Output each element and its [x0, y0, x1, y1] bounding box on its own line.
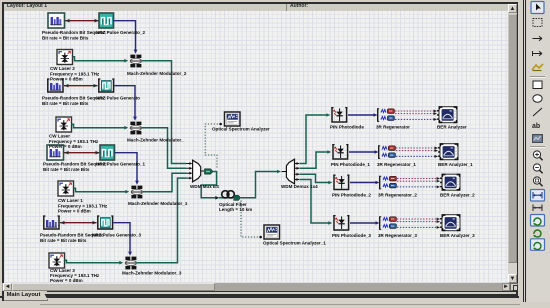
wire PRBS_2 to NRZ_2 (binary): [65, 19, 99, 23]
svg-text:3R Regenerator_3: 3R Regenerator_3: [378, 233, 417, 238]
Mach-Zehnder Modulator_1: [131, 186, 142, 199]
NRZ Pulse Generator_2: [99, 13, 114, 28]
arrow tool 2: [533, 51, 543, 56]
svg-text:WDM Mux ES: WDM Mux ES: [190, 184, 219, 189]
line tool: [533, 108, 542, 116]
svg-text:Mach-Zehnder Modulator_1: Mach-Zehnder Modulator_1: [128, 201, 188, 206]
svg-text:Mach-Zehnder Modulator_2: Mach-Zehnder Modulator_2: [127, 71, 187, 76]
svg-text:BER Analyzer_1: BER Analyzer_1: [438, 162, 473, 167]
PIN Photodiode_1: [332, 145, 348, 159]
status area line: [40, 304, 520, 305]
svg-text:NRZ Pulse Generato_3: NRZ Pulse Generato_3: [92, 233, 141, 238]
wire demux out 1 to PIN Photodiode (optical): [300, 113, 331, 163]
wire MZM_1 to WDM mux input 3 (optical): [143, 173, 186, 192]
3R Regenerator_3: [379, 217, 396, 230]
dotted wires 3R Regenerator_3 to BER Analyzer_3: [397, 218, 440, 229]
image tool: [532, 134, 543, 143]
BER Analyzer_1: [438, 144, 458, 160]
svg-text:Mach-Zehnder Modulator_3: Mach-Zehnder Modulator_3: [122, 271, 182, 276]
svg-text:Frequency = 193.1 THz: Frequency = 193.1 THz: [58, 203, 108, 208]
svg-text:PIN Photodiode: PIN Photodiode: [330, 124, 364, 129]
WDM Demux 1x4: [282, 159, 300, 184]
BER Analyzer_3: [440, 215, 460, 231]
svg-text:3R Regenerator: 3R Regenerator: [376, 124, 410, 129]
3R Regenerator: [377, 109, 394, 122]
separator: [530, 146, 545, 148]
dotted wires 3R Regenerator to BER Analyzer: [395, 110, 437, 121]
svg-text:CW Laser: CW Laser: [49, 134, 70, 139]
zoom out tool: [533, 164, 542, 173]
svg-text:Power = 0 dBm: Power = 0 dBm: [50, 77, 83, 82]
layout tool: [533, 230, 541, 237]
svg-text:CW Laser 1: CW Laser 1: [58, 198, 83, 203]
svg-text:Length = 10 km: Length = 10 km: [219, 207, 252, 212]
svg-text:Mach-Zehnder Modulator_: Mach-Zehnder Modulator_: [127, 138, 184, 143]
svg-text:Frequency = 193.1 THz: Frequency = 193.1 THz: [50, 71, 100, 76]
wire NRZ_2 to MZM_2 (electrical): [114, 21, 138, 54]
dotted wires 3R Regenerator_2 to BER Analyzer_2: [397, 177, 440, 188]
script tool: [532, 64, 543, 70]
svg-text:NRZ Pulse Generato_1: NRZ Pulse Generato_1: [96, 162, 145, 167]
CW Laser: [56, 117, 72, 132]
PRBS generator Pseudo-Random Bit Sequence Generator_1: [47, 145, 64, 160]
3R Regenerator_1: [378, 146, 395, 159]
frame left edge extension: [2, 294, 4, 301]
right toolbar: [527, 0, 550, 302]
zoom window tool: [533, 177, 542, 186]
wire NRZ to MZM (electrical) chain 2: [115, 86, 137, 121]
CW Laser 1: [58, 181, 74, 196]
svg-text:Optical Spectrum Analyzer: Optical Spectrum Analyzer: [212, 126, 270, 131]
wire demux out 2 to PIN Photodiode_1 (optical): [300, 150, 332, 168]
PIN Photodiode_3: [333, 216, 349, 230]
svg-text:BER Analyzer: BER Analyzer: [437, 124, 467, 129]
fit to window (active): [531, 190, 545, 202]
sweep tool (active): [531, 239, 545, 251]
Optical Spectrum Analyzer: [225, 112, 241, 126]
wire MZM_3 to WDM mux input 4 (optical): [137, 178, 186, 263]
Main Layout tab: [3, 291, 48, 301]
marquee tool: [533, 19, 542, 27]
WDM Mux ES 4x1: [186, 160, 204, 182]
svg-text:3R Regenerator_1: 3R Regenerator_1: [377, 162, 416, 167]
separator: [530, 76, 545, 78]
dotted tap to Optical Spectrum Analyzer_1: [241, 201, 262, 239]
title bar: [4, 4, 509, 12]
dotted wires 3R Regenerator_1 to BER Analyzer_1: [396, 147, 438, 158]
CW Laser 2: [57, 50, 73, 65]
wire CW Laser 2 to MZM_2 (optical): [73, 57, 129, 63]
PIN Photodiode_2: [333, 175, 349, 189]
wire PRBS to NRZ (binary) chain 2: [64, 84, 98, 88]
PRBS generator Pseudo-Random Bit Sequence Generator_3: [43, 216, 60, 229]
svg-text:Bit rate = Bit rate Bits: Bit rate = Bit rate Bits: [42, 35, 89, 40]
wire WDM mux to optical fiber (optical): [201, 172, 219, 200]
PRBS generator Pseudo-Random Bit Sequence Generator: [47, 79, 64, 92]
select tool (active): [531, 2, 544, 14]
3R Regenerator_2: [379, 176, 396, 189]
fiber output port connector: [234, 195, 241, 200]
mux output port connector: [205, 169, 214, 174]
svg-text:Power = 0 dBm: Power = 0 dBm: [58, 209, 91, 214]
wire MZM_2 to WDM mux input 1 (optical): [142, 61, 186, 164]
NRZ Pulse Generator: [98, 79, 114, 92]
zoom in tool: [533, 151, 542, 160]
wire demux out 3 to PIN Photodiode_2 (optical): [300, 174, 333, 184]
wire demux out 4 to PIN Photodiode_3 (optical): [300, 180, 333, 225]
wire NRZ_3 to MZM_3 (electrical): [114, 223, 132, 256]
wire PRBS_1 to NRZ_1 (binary) chain 3: [64, 151, 100, 155]
fit page tool: [533, 205, 542, 212]
NRZ Pulse Generator_1: [100, 145, 115, 160]
svg-text:PIN Photodiode_2: PIN Photodiode_2: [332, 193, 371, 198]
window bottom border: [0, 296, 519, 298]
svg-text:3R Regenerator_2: 3R Regenerator_2: [378, 193, 417, 198]
wire PIN Photodiode_3 to 3R Regenerator_3 (electrical): [350, 221, 380, 225]
svg-text:NRZ Pulse Generato_2: NRZ Pulse Generato_2: [96, 30, 145, 35]
wire CW Laser 3 to MZM_3 (optical): [65, 260, 124, 264]
horizontal scrollbar: [2, 283, 517, 291]
CW Laser 3: [49, 253, 65, 268]
wire NRZ_1 to MZM_1 (electrical): [115, 153, 139, 185]
svg-text:Bit rate = Bit rate Bits: Bit rate = Bit rate Bits: [40, 238, 87, 243]
svg-text:Frequency = 193.1 THz: Frequency = 193.1 THz: [49, 139, 99, 144]
wire optical fiber to WDM demux (optical): [241, 170, 281, 198]
optical fiber coils: [219, 191, 234, 198]
refresh tool (active): [531, 215, 545, 227]
dotted tap to Optical Spectrum Analyzer: [205, 123, 222, 168]
PRBS generator Pseudo-Random Bit Sequence Generator_2: [48, 13, 65, 28]
svg-text:BER Analyzer_3: BER Analyzer_3: [440, 233, 475, 238]
Mach-Zehnder Modulator_3: [125, 257, 136, 270]
BER Analyzer: [437, 107, 457, 123]
Mach-Zehnder Modulator_2: [130, 55, 141, 68]
wire PIN Photodiode_1 to 3R Regenerator_1 (electrical): [349, 150, 379, 154]
wire PRBS_3 to NRZ_3 (binary) chain 4: [60, 221, 97, 225]
svg-text:Bit rate = Bit rate Bits: Bit rate = Bit rate Bits: [43, 167, 90, 172]
wire CW Laser 1 to MZM_1 (optical): [74, 188, 130, 193]
svg-text:WDM Demux 1x4: WDM Demux 1x4: [281, 184, 318, 189]
PIN Photodiode: [331, 108, 347, 122]
wire PIN Photodiode_2 to 3R Regenerator_2 (electrical): [350, 181, 380, 185]
vertical scrollbar: [508, 4, 517, 283]
toolbar separator double line: [523, 0, 524, 302]
svg-text:PIN Photodiode_3: PIN Photodiode_3: [332, 233, 371, 238]
NRZ Pulse Generator_3: [97, 216, 113, 229]
svg-text:Optical Spectrum Analyzer_1: Optical Spectrum Analyzer_1: [263, 241, 326, 246]
ellipse tool: [533, 95, 542, 103]
svg-text:CW Laser 2: CW Laser 2: [50, 66, 75, 71]
rectangle tool: [533, 81, 542, 89]
wire CW Laser to MZM (optical) chain 2: [72, 124, 129, 129]
svg-text:BER Analyzer_2: BER Analyzer_2: [440, 193, 475, 198]
svg-text:Bit rate = Bit rate Bits: Bit rate = Bit rate Bits: [42, 101, 89, 106]
Optical Spectrum Analyzer_1: [264, 225, 280, 239]
BER Analyzer_2: [440, 174, 460, 190]
wire PIN Photodiode to 3R Regenerator (electrical): [348, 113, 378, 117]
wire MZM to WDM mux input 2 (optical): [142, 128, 186, 169]
svg-text:NRZ Pulse Generato: NRZ Pulse Generato: [96, 96, 140, 101]
svg-text:Power = 0 dBm: Power = 0 dBm: [49, 144, 82, 149]
arrow tool 1: [533, 36, 543, 40]
svg-text:ab: ab: [532, 123, 540, 130]
svg-text:PIN Photodiode_1: PIN Photodiode_1: [331, 162, 370, 167]
tab strip top line: [47, 291, 517, 292]
Mach-Zehnder Modulator: [130, 122, 141, 135]
